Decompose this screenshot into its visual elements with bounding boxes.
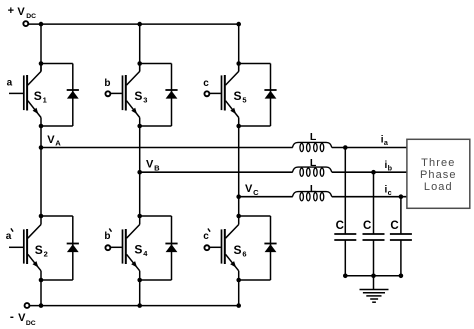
junction dot S5 emitter node bbox=[236, 124, 241, 129]
wire DC+ rail bbox=[29, 23, 239, 25]
inductor L phase c bbox=[292, 192, 331, 201]
wire diode branch vertical S3 bbox=[171, 64, 173, 127]
svg-text:S: S bbox=[234, 89, 242, 103]
junction dot phase B capacitor tap bbox=[371, 170, 376, 175]
wire leg 3 upper vertical bbox=[238, 24, 240, 71]
wire ground stem bbox=[373, 276, 375, 290]
svg-text:V: V bbox=[245, 183, 253, 195]
wire diode branch vertical S4 bbox=[171, 216, 173, 280]
node V_A bbox=[39, 145, 44, 150]
junction dot leg 2 on DC- rail bbox=[137, 303, 142, 308]
wire gate lead c bbox=[210, 92, 221, 94]
junction dot S4 collector node bbox=[137, 214, 142, 219]
wire capacitor branch b lower bbox=[373, 240, 375, 276]
capacitor C phase a bbox=[334, 234, 356, 240]
svg-text:5: 5 bbox=[242, 95, 246, 104]
wire gate lead b bbox=[111, 92, 122, 94]
svg-text:a: a bbox=[7, 77, 13, 88]
svg-text:c: c bbox=[388, 188, 392, 197]
inductor L phase b bbox=[292, 167, 331, 176]
wire diode branch vertical S5 bbox=[270, 64, 272, 127]
svg-text:A: A bbox=[55, 139, 61, 148]
-VDC terminal bbox=[25, 303, 30, 308]
wire diode branch top S2 bbox=[41, 215, 73, 217]
transistor S1 bbox=[24, 64, 41, 127]
svg-text:-: - bbox=[10, 309, 14, 323]
svg-text:S: S bbox=[134, 243, 142, 257]
junction dot S6 collector node bbox=[236, 214, 241, 219]
wire diode branch bottom S6 bbox=[239, 279, 271, 281]
gate terminal c bbox=[204, 91, 209, 96]
wire diode branch bottom S4 bbox=[140, 279, 172, 281]
diode D3 bbox=[165, 90, 177, 99]
svg-text:V: V bbox=[47, 134, 55, 146]
junction dot S1 emitter node bbox=[39, 124, 44, 129]
wire gate lead c` bbox=[210, 246, 221, 248]
junction dot capacitor c on bus bbox=[399, 274, 404, 279]
svg-text:a: a bbox=[384, 138, 389, 147]
+VDC terminal bbox=[23, 21, 28, 26]
gate terminal b` bbox=[105, 245, 110, 250]
svg-text:a: a bbox=[6, 231, 12, 242]
wire diode branch bottom S5 bbox=[239, 125, 271, 127]
svg-text:Load: Load bbox=[424, 181, 453, 193]
wire diode branch bottom S2 bbox=[41, 279, 73, 281]
svg-text:DC: DC bbox=[26, 13, 36, 20]
diode D6 bbox=[264, 244, 276, 253]
wire leg 3 bottom vertical bbox=[238, 280, 240, 306]
junction dot S4 emitter node bbox=[137, 278, 142, 283]
svg-text:C: C bbox=[336, 220, 344, 232]
node V_B bbox=[137, 170, 142, 175]
load box Three Phase Load bbox=[407, 139, 470, 208]
svg-text:2: 2 bbox=[44, 249, 48, 258]
wire diode branch top S5 bbox=[239, 63, 271, 65]
inductor L phase a bbox=[292, 142, 331, 151]
wire DC- rail bbox=[30, 305, 239, 307]
svg-text:+: + bbox=[8, 5, 14, 17]
diode D5 bbox=[264, 90, 276, 99]
svg-text:b: b bbox=[104, 231, 110, 242]
svg-text:Phase: Phase bbox=[420, 169, 457, 181]
node V_C bbox=[236, 194, 241, 199]
junction dot capacitor a on bus bbox=[343, 274, 348, 279]
wire leg 2 upper vertical bbox=[139, 24, 141, 71]
wire leg 2 lower mid vertical bbox=[139, 172, 141, 216]
junction dot leg 2 on DC+ rail bbox=[137, 22, 142, 27]
ground bbox=[360, 290, 389, 303]
wire diode branch top S6 bbox=[239, 215, 271, 217]
svg-text:C: C bbox=[390, 220, 398, 232]
junction dot leg 1 on DC- rail bbox=[39, 303, 44, 308]
wire capacitor branch a lower bbox=[344, 240, 346, 276]
junction dot phase A capacitor tap bbox=[343, 145, 348, 150]
wire phase C inductor to load bbox=[332, 196, 407, 198]
wire leg 3 mid vertical bbox=[238, 126, 240, 197]
capacitor C phase c bbox=[390, 234, 412, 240]
transistor S3 bbox=[123, 64, 140, 127]
wire phase A inductor to load bbox=[332, 147, 407, 149]
wire diode branch vertical S1 bbox=[72, 64, 74, 127]
wire leg 1 upper vertical bbox=[40, 24, 42, 71]
svg-text:C: C bbox=[363, 220, 371, 232]
svg-text:b: b bbox=[104, 78, 110, 89]
svg-text:3: 3 bbox=[143, 95, 147, 104]
junction dot leg 3 on DC+ rail bbox=[236, 22, 241, 27]
junction dot capacitor b on bus bbox=[371, 274, 376, 279]
wire gate lead a bbox=[9, 92, 23, 94]
svg-text:S: S bbox=[134, 89, 142, 103]
transistor S6 bbox=[222, 216, 239, 280]
svg-text:4: 4 bbox=[143, 249, 148, 258]
capacitor C phase b bbox=[363, 234, 385, 240]
wire capacitor common bus bbox=[345, 275, 401, 277]
wire phase A to inductor bbox=[41, 147, 293, 149]
wire diode branch bottom S3 bbox=[140, 125, 172, 127]
wire leg 3 lower mid vertical bbox=[238, 197, 240, 216]
junction dot phase C capacitor tap bbox=[399, 194, 404, 199]
svg-text:B: B bbox=[154, 163, 160, 172]
junction dot leg 1 on DC+ rail bbox=[39, 22, 44, 27]
svg-text:b: b bbox=[388, 164, 393, 173]
wire capacitor branch a upper bbox=[344, 148, 346, 235]
wire phase B inductor to load bbox=[332, 171, 407, 173]
wire diode branch vertical S6 bbox=[270, 216, 272, 280]
junction dot S5 collector node bbox=[236, 61, 241, 66]
wire gate lead a` bbox=[9, 246, 23, 248]
svg-text:V: V bbox=[146, 159, 154, 171]
wire gate lead b` bbox=[111, 246, 122, 248]
wire phase B to inductor bbox=[140, 171, 293, 173]
svg-text:1: 1 bbox=[43, 95, 47, 104]
transistor S4 bbox=[123, 216, 140, 280]
junction dot S2 collector node bbox=[39, 214, 44, 219]
junction dot leg 3 on DC- rail bbox=[236, 303, 241, 308]
wire capacitor branch c lower bbox=[400, 240, 402, 276]
svg-text:c: c bbox=[203, 78, 209, 89]
svg-text:S: S bbox=[34, 89, 42, 103]
svg-text:Three: Three bbox=[421, 157, 455, 169]
diode D2 bbox=[67, 244, 79, 253]
svg-text:V: V bbox=[17, 6, 25, 18]
wire diode branch bottom S1 bbox=[41, 125, 73, 127]
wire diode branch top S4 bbox=[140, 215, 172, 217]
diode D4 bbox=[165, 244, 177, 253]
transistor S5 bbox=[222, 64, 239, 127]
wire capacitor branch c upper bbox=[400, 197, 402, 234]
junction dot S2 emitter node bbox=[39, 278, 44, 283]
svg-text:L: L bbox=[310, 131, 317, 143]
wire phase C to inductor bbox=[239, 196, 293, 198]
wire diode branch top S3 bbox=[140, 63, 172, 65]
junction dot S1 collector node bbox=[39, 61, 44, 66]
wire diode branch top S1 bbox=[41, 63, 73, 65]
svg-text:6: 6 bbox=[242, 249, 246, 258]
junction dot S3 emitter node bbox=[137, 124, 142, 129]
wire leg 1 lower mid vertical bbox=[40, 148, 42, 217]
junction dot S6 emitter node bbox=[236, 278, 241, 283]
wire capacitor branch b upper bbox=[373, 172, 375, 234]
svg-text:S: S bbox=[35, 243, 43, 257]
wire leg 1 bottom vertical bbox=[40, 280, 42, 306]
wire leg 1 mid vertical bbox=[40, 126, 42, 148]
diode D1 bbox=[67, 90, 79, 99]
junction dot S3 collector node bbox=[137, 61, 142, 66]
gate terminal c` bbox=[204, 245, 209, 250]
wire leg 2 bottom vertical bbox=[139, 280, 141, 306]
svg-text:C: C bbox=[253, 188, 259, 197]
svg-text:c: c bbox=[203, 231, 209, 242]
svg-text:L: L bbox=[310, 157, 317, 169]
svg-text:DC: DC bbox=[26, 320, 36, 327]
svg-text:V: V bbox=[18, 312, 26, 324]
svg-text:L: L bbox=[310, 183, 317, 195]
svg-text:S: S bbox=[234, 243, 242, 257]
transistor S2 bbox=[24, 216, 41, 280]
wire leg 2 mid vertical bbox=[139, 126, 141, 172]
gate terminal b bbox=[105, 91, 110, 96]
wire diode branch vertical S2 bbox=[72, 216, 74, 280]
